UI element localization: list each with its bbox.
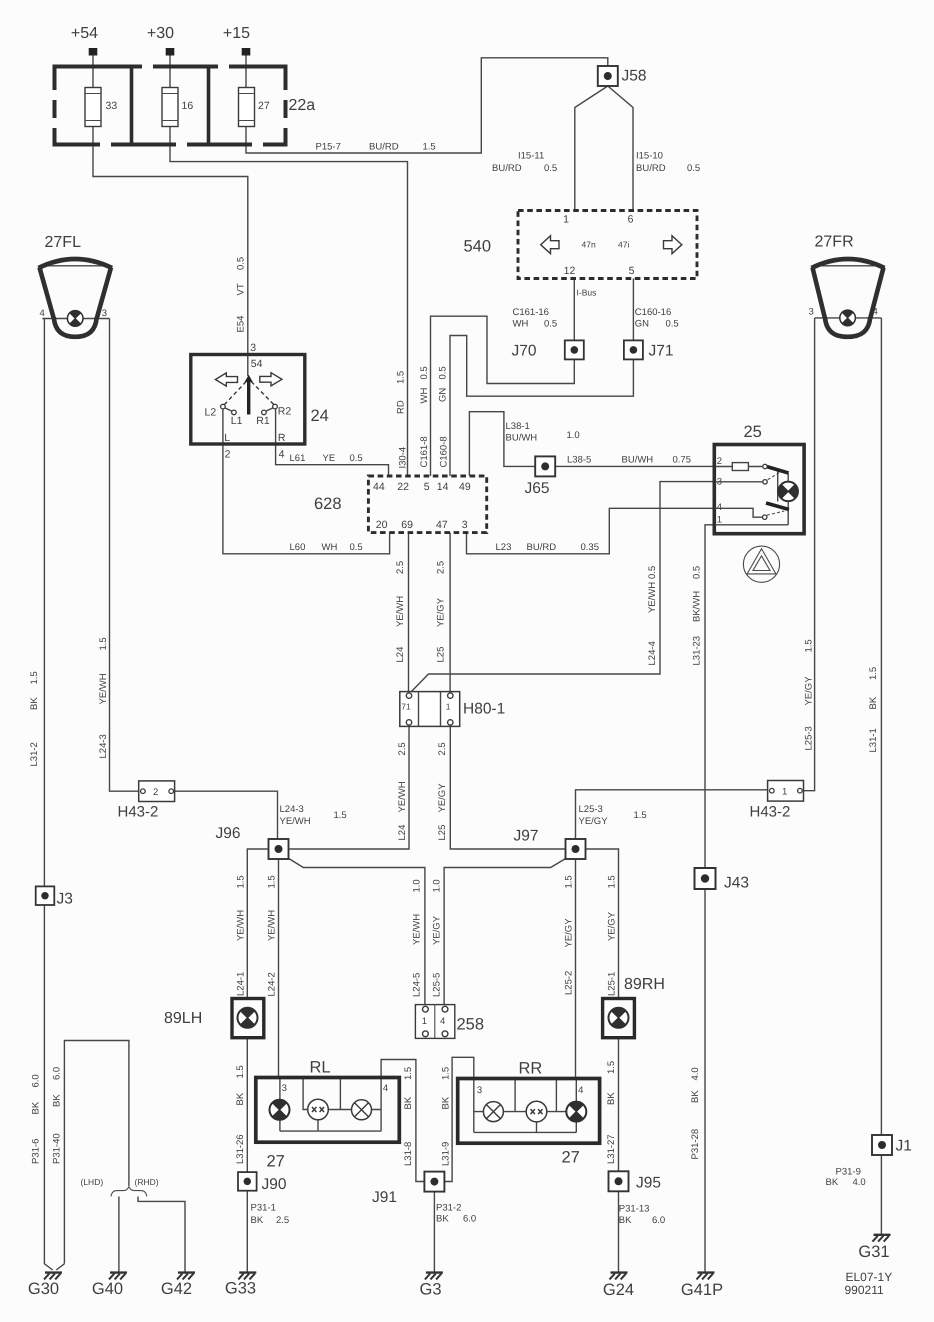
svg-text:YE/GY: YE/GY <box>579 816 609 827</box>
svg-text:BK: BK <box>436 1214 449 1225</box>
svg-text:BK/WH: BK/WH <box>691 591 702 622</box>
svg-text:3: 3 <box>809 307 814 318</box>
svg-text:VT: VT <box>236 283 247 295</box>
svg-text:L31-1: L31-1 <box>868 728 879 752</box>
svg-text:L38-1: L38-1 <box>506 421 530 432</box>
svg-text:L25-1: L25-1 <box>606 972 617 996</box>
svg-text:YE/WH: YE/WH <box>647 582 658 613</box>
svg-text:3: 3 <box>462 519 468 531</box>
svg-text:P31-40: P31-40 <box>51 1133 62 1164</box>
svg-text:0.5: 0.5 <box>666 319 679 330</box>
svg-text:258: 258 <box>457 1016 485 1034</box>
svg-text:J65: J65 <box>525 480 550 497</box>
svg-text:2.5: 2.5 <box>276 1215 289 1226</box>
svg-text:20: 20 <box>376 519 388 531</box>
svg-text:49: 49 <box>459 481 471 493</box>
svg-text:L24-3: L24-3 <box>280 804 304 815</box>
svg-text:5: 5 <box>629 265 635 277</box>
svg-text:4: 4 <box>40 308 45 319</box>
svg-text:BK: BK <box>403 1096 414 1109</box>
svg-text:0.5: 0.5 <box>647 566 658 579</box>
svg-text:1.5: 1.5 <box>423 142 436 153</box>
svg-text:1: 1 <box>422 1016 427 1027</box>
svg-text:0.5: 0.5 <box>437 366 448 379</box>
svg-text:G30: G30 <box>28 1280 59 1298</box>
svg-text:BK: BK <box>440 1096 451 1109</box>
svg-text:4: 4 <box>279 449 285 461</box>
svg-text:1.5: 1.5 <box>403 1067 414 1080</box>
svg-text:G41P: G41P <box>681 1281 723 1299</box>
svg-text:YE/WH: YE/WH <box>397 781 408 812</box>
svg-text:27: 27 <box>267 1153 285 1171</box>
svg-text:YE/GY: YE/GY <box>803 676 814 706</box>
svg-text:BK: BK <box>619 1215 632 1226</box>
svg-text:4: 4 <box>440 1016 445 1027</box>
svg-text:BK: BK <box>29 697 40 710</box>
svg-text:L24-2: L24-2 <box>267 972 278 996</box>
svg-text:L60: L60 <box>290 542 306 553</box>
svg-text:27FR: 27FR <box>815 234 854 251</box>
svg-text:4: 4 <box>383 1083 388 1094</box>
svg-text:71: 71 <box>401 702 411 712</box>
svg-text:YE/GY: YE/GY <box>431 915 442 945</box>
svg-text:0.5: 0.5 <box>236 257 247 270</box>
svg-text:14: 14 <box>437 481 449 493</box>
svg-text:J3: J3 <box>57 891 73 908</box>
svg-text:I15-11: I15-11 <box>518 151 544 162</box>
svg-text:J91: J91 <box>372 1189 397 1206</box>
svg-text:2.5: 2.5 <box>435 561 446 574</box>
svg-text:0.5: 0.5 <box>350 542 363 553</box>
svg-text:C160-16: C160-16 <box>635 307 671 318</box>
svg-text:L31-26: L31-26 <box>235 1134 246 1164</box>
svg-text:3: 3 <box>102 308 107 319</box>
svg-text:3: 3 <box>717 477 722 488</box>
svg-text:BK: BK <box>868 696 879 709</box>
svg-text:R2: R2 <box>278 406 292 418</box>
svg-text:0.5: 0.5 <box>544 163 557 174</box>
svg-text:27: 27 <box>258 100 270 112</box>
svg-text:YE/WH: YE/WH <box>98 673 109 704</box>
svg-text:YE/WH: YE/WH <box>411 914 422 945</box>
svg-text:L31-23: L31-23 <box>691 636 702 666</box>
svg-text:BK: BK <box>235 1092 246 1105</box>
svg-text:+54: +54 <box>71 25 98 42</box>
svg-text:27: 27 <box>562 1149 580 1167</box>
svg-text:YE/WH: YE/WH <box>280 816 311 827</box>
svg-text:I15-10: I15-10 <box>636 151 663 162</box>
svg-text:BU/RD: BU/RD <box>527 542 557 553</box>
svg-text:BK: BK <box>251 1215 264 1226</box>
svg-text:4.0: 4.0 <box>853 1177 866 1188</box>
svg-text:1.5: 1.5 <box>440 1067 451 1080</box>
svg-text:L31-8: L31-8 <box>403 1142 414 1166</box>
svg-text:54: 54 <box>251 358 263 370</box>
svg-text:0.5: 0.5 <box>419 366 430 379</box>
svg-text:BU/WH: BU/WH <box>506 433 538 444</box>
svg-text:1.5: 1.5 <box>29 671 40 684</box>
svg-text:6.0: 6.0 <box>30 1074 41 1087</box>
svg-text:1: 1 <box>782 786 787 797</box>
svg-text:5: 5 <box>424 481 430 493</box>
svg-text:1: 1 <box>563 214 569 226</box>
svg-text:+15: +15 <box>223 25 250 42</box>
svg-text:J58: J58 <box>622 68 647 85</box>
svg-text:89RH: 89RH <box>624 976 665 993</box>
svg-text:H43-2: H43-2 <box>118 804 159 821</box>
svg-text:0.5: 0.5 <box>687 163 700 174</box>
svg-text:27FL: 27FL <box>45 234 82 251</box>
svg-text:BK: BK <box>826 1177 839 1188</box>
svg-text:E54: E54 <box>236 316 247 333</box>
svg-text:G40: G40 <box>92 1280 123 1298</box>
svg-text:L31-2: L31-2 <box>29 742 40 766</box>
svg-text:P31-9: P31-9 <box>836 1167 861 1178</box>
svg-text:1.0: 1.0 <box>411 879 422 892</box>
svg-text:YE/GY: YE/GY <box>606 911 617 941</box>
svg-text:2.5: 2.5 <box>397 742 408 755</box>
svg-text:J96: J96 <box>216 825 241 842</box>
svg-text:33: 33 <box>106 100 118 112</box>
svg-text:1.5: 1.5 <box>334 810 347 821</box>
svg-text:1.5: 1.5 <box>236 875 247 888</box>
svg-text:16: 16 <box>182 100 194 112</box>
svg-text:24: 24 <box>311 407 329 425</box>
svg-text:0.5: 0.5 <box>350 453 363 464</box>
svg-text:L31-9: L31-9 <box>440 1142 451 1166</box>
svg-text:L38-5: L38-5 <box>567 455 591 466</box>
svg-text:BK: BK <box>30 1101 41 1114</box>
svg-text:C161-16: C161-16 <box>513 307 549 318</box>
svg-text:RD: RD <box>396 400 407 414</box>
svg-text:12: 12 <box>564 265 576 277</box>
svg-text:25: 25 <box>744 423 762 441</box>
svg-text:L24-3: L24-3 <box>98 734 109 758</box>
svg-text:J70: J70 <box>512 343 537 360</box>
svg-text:990211: 990211 <box>845 1283 884 1297</box>
svg-text:I30-4: I30-4 <box>398 447 409 469</box>
svg-text:1.0: 1.0 <box>567 430 580 441</box>
svg-text:L24-5: L24-5 <box>411 973 422 997</box>
svg-text:628: 628 <box>314 495 342 513</box>
svg-text:EL07-1Y: EL07-1Y <box>846 1270 893 1284</box>
svg-text:L25-5: L25-5 <box>431 973 442 997</box>
svg-text:6: 6 <box>628 214 634 226</box>
svg-text:4.0: 4.0 <box>690 1067 701 1080</box>
svg-text:H80-1: H80-1 <box>463 701 505 718</box>
svg-text:J71: J71 <box>649 343 674 360</box>
svg-text:89LH: 89LH <box>164 1010 202 1027</box>
svg-text:L31-27: L31-27 <box>606 1134 617 1164</box>
svg-text:4: 4 <box>578 1085 583 1096</box>
svg-text:YE/WH: YE/WH <box>395 596 406 627</box>
svg-text:1: 1 <box>446 702 451 712</box>
svg-text:GN: GN <box>635 319 649 330</box>
svg-text:C161-8: C161-8 <box>419 436 430 467</box>
svg-text:R1: R1 <box>256 415 270 427</box>
svg-text:YE: YE <box>323 453 336 464</box>
svg-text:L25: L25 <box>435 647 446 663</box>
svg-text:L24-1: L24-1 <box>236 972 247 996</box>
svg-text:2: 2 <box>153 787 158 798</box>
svg-text:1.5: 1.5 <box>563 875 574 888</box>
svg-text:1.5: 1.5 <box>267 875 278 888</box>
svg-text:BK: BK <box>690 1090 701 1103</box>
svg-text:L25-3: L25-3 <box>579 804 603 815</box>
svg-text:RR: RR <box>519 1060 543 1078</box>
svg-text:L24: L24 <box>395 647 406 663</box>
svg-text:(RHD): (RHD) <box>135 1177 159 1187</box>
svg-text:P31-1: P31-1 <box>251 1203 276 1214</box>
svg-text:L25: L25 <box>437 825 448 841</box>
svg-text:J43: J43 <box>724 875 749 892</box>
svg-text:4: 4 <box>873 307 878 318</box>
svg-text:WH: WH <box>322 542 338 553</box>
svg-text:1.5: 1.5 <box>606 875 617 888</box>
svg-text:J97: J97 <box>514 828 539 845</box>
svg-text:P31-28: P31-28 <box>690 1129 701 1160</box>
svg-text:44: 44 <box>373 481 385 493</box>
svg-text:6.0: 6.0 <box>51 1067 62 1080</box>
svg-text:47n: 47n <box>582 240 596 250</box>
svg-text:3: 3 <box>282 1083 287 1094</box>
svg-text:22a: 22a <box>289 97 316 114</box>
svg-text:J90: J90 <box>262 1176 287 1193</box>
svg-text:P31-2: P31-2 <box>436 1203 461 1214</box>
svg-text:3: 3 <box>250 342 256 354</box>
svg-text:22: 22 <box>397 481 409 493</box>
svg-text:1.5: 1.5 <box>98 637 109 650</box>
svg-text:C160-8: C160-8 <box>439 436 450 467</box>
svg-text:YE/GY: YE/GY <box>563 918 574 948</box>
svg-text:2.5: 2.5 <box>395 561 406 574</box>
svg-text:L: L <box>224 432 230 444</box>
svg-text:BK: BK <box>606 1092 617 1105</box>
svg-text:1.5: 1.5 <box>606 1061 617 1074</box>
svg-text:YE/WH: YE/WH <box>267 910 278 941</box>
svg-text:G31: G31 <box>858 1243 889 1261</box>
svg-text:2: 2 <box>717 456 722 467</box>
svg-text:BU/RD: BU/RD <box>492 163 522 174</box>
svg-text:G33: G33 <box>225 1280 256 1298</box>
svg-text:540: 540 <box>464 238 492 256</box>
svg-text:2.5: 2.5 <box>437 742 448 755</box>
svg-text:1.0: 1.0 <box>431 879 442 892</box>
svg-text:BU/RD: BU/RD <box>636 163 666 174</box>
svg-text:L61: L61 <box>290 453 306 464</box>
svg-text:YE/GY: YE/GY <box>437 783 448 813</box>
svg-text:H43-2: H43-2 <box>750 804 791 821</box>
svg-text:BU/WH: BU/WH <box>622 455 654 466</box>
svg-text:L24-4: L24-4 <box>647 641 658 665</box>
svg-text:L25-2: L25-2 <box>563 971 574 995</box>
svg-text:0.75: 0.75 <box>673 455 692 466</box>
svg-text:RL: RL <box>310 1059 331 1077</box>
svg-text:P31-6: P31-6 <box>30 1139 41 1164</box>
svg-text:0.35: 0.35 <box>581 542 600 553</box>
svg-text:2: 2 <box>225 449 231 461</box>
svg-text:0.5: 0.5 <box>544 319 557 330</box>
svg-text:YE/GY: YE/GY <box>435 597 446 627</box>
svg-text:4: 4 <box>717 502 722 513</box>
svg-text:WH: WH <box>419 388 430 404</box>
svg-text:J95: J95 <box>636 1175 661 1192</box>
svg-text:1: 1 <box>717 515 722 526</box>
svg-text:P31-13: P31-13 <box>619 1204 650 1215</box>
svg-text:6.0: 6.0 <box>652 1215 665 1226</box>
svg-text:WH: WH <box>513 319 529 330</box>
svg-text:69: 69 <box>401 519 413 531</box>
svg-text:+30: +30 <box>147 25 174 42</box>
svg-text:L23: L23 <box>496 542 512 553</box>
svg-text:L2: L2 <box>205 407 217 419</box>
svg-text:L1: L1 <box>231 415 243 427</box>
svg-text:1.5: 1.5 <box>868 667 879 680</box>
svg-text:R: R <box>278 432 286 444</box>
svg-text:G42: G42 <box>161 1280 192 1298</box>
svg-text:3: 3 <box>477 1085 482 1096</box>
svg-text:1.5: 1.5 <box>634 810 647 821</box>
svg-text:I-Bus: I-Bus <box>577 288 597 298</box>
svg-text:YE/WH: YE/WH <box>236 910 247 941</box>
svg-text:G3: G3 <box>419 1281 441 1299</box>
svg-text:47: 47 <box>436 519 448 531</box>
svg-text:GN: GN <box>437 388 448 402</box>
svg-text:G24: G24 <box>603 1281 634 1299</box>
svg-text:(LHD): (LHD) <box>81 1177 104 1187</box>
svg-text:L25-3: L25-3 <box>803 726 814 750</box>
svg-text:J1: J1 <box>896 1138 912 1155</box>
svg-text:1.5: 1.5 <box>803 639 814 652</box>
svg-text:1.5: 1.5 <box>396 371 407 384</box>
svg-text:0.5: 0.5 <box>691 566 702 579</box>
svg-text:6.0: 6.0 <box>463 1214 476 1225</box>
svg-text:BU/RD: BU/RD <box>369 142 399 153</box>
svg-text:L24: L24 <box>397 825 408 841</box>
svg-text:P15-7: P15-7 <box>316 142 341 153</box>
svg-text:47i: 47i <box>618 240 629 250</box>
svg-text:BK: BK <box>51 1094 62 1107</box>
svg-text:1.5: 1.5 <box>235 1065 246 1078</box>
